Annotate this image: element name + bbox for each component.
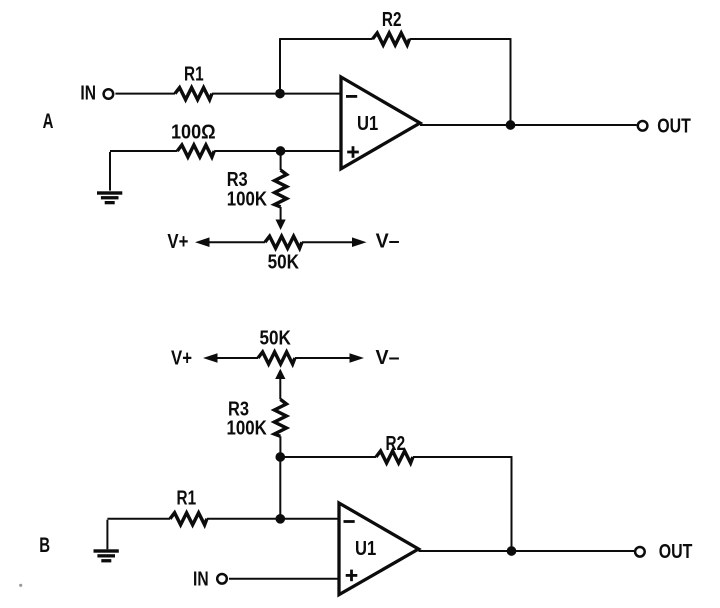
wire R2 to right corner — [410, 38, 511, 40]
pin minus sign (B) — [344, 520, 355, 523]
wire pot to V- arrow (B) — [295, 357, 351, 359]
wire R2 to right corner (B) — [413, 456, 512, 458]
terminal IN (A) — [104, 89, 114, 99]
wire op-amp output to OUT (A) — [420, 124, 637, 126]
wire feedback top-left to R2 — [279, 38, 373, 40]
terminal OUT (A) — [638, 121, 648, 131]
svg-text:100Ω: 100Ω — [171, 121, 216, 143]
svg-text:OUT: OUT — [657, 116, 691, 138]
potentiometer 50K body (B) zigzag — [258, 352, 295, 364]
wire feedback vertical down to output (B) — [511, 456, 513, 551]
node: junction dot inverting input (A) — [275, 89, 285, 99]
wire IN to R1 — [115, 93, 175, 95]
svg-text:50K: 50K — [268, 252, 300, 274]
node: junction dot R2 tap (B) — [275, 452, 285, 462]
arrowhead V- (A) — [352, 237, 367, 247]
wire ground drop (B) — [106, 520, 108, 550]
terminal IN (B) — [217, 574, 227, 584]
wire R1 to op-amp inverting input (B) — [207, 518, 339, 520]
ground symbol (A) — [97, 191, 122, 204]
wiper arrow pointing up at pot (B) — [275, 369, 285, 379]
ground symbol (B) — [94, 549, 119, 562]
resistor R3 (B) vertical zigzag — [274, 399, 286, 436]
wire wiper arrow to R3 (B) — [279, 379, 281, 400]
svg-text:IN: IN — [80, 82, 96, 104]
svg-text:B: B — [39, 534, 50, 557]
wire 100-ohm to op-amp noninverting input — [214, 150, 341, 152]
pin plus sign (B) — [346, 570, 358, 582]
wire feedback left vertical (A) — [279, 39, 281, 94]
wire R3 to node (B) — [279, 436, 281, 457]
svg-text:U1: U1 — [357, 113, 378, 135]
terminal OUT (B) — [635, 547, 645, 557]
svg-text:50K: 50K — [260, 328, 292, 350]
resistor 100-ohm zigzag (A) — [177, 145, 214, 157]
wire node down to inverting input row (B) — [279, 457, 281, 519]
wire R1 to op-amp inverting input — [212, 93, 341, 95]
node: junction dot output (B) — [507, 546, 517, 556]
svg-text:R2: R2 — [382, 9, 402, 31]
resistor R1 (B) zigzag — [170, 513, 207, 525]
node: junction dot noninverting input (A) — [276, 146, 286, 156]
resistor R2 (A) zigzag — [373, 33, 410, 45]
svg-text:V+: V+ — [167, 231, 188, 253]
wire R3 to wiper arrow (A) — [280, 207, 282, 220]
arrowhead V+ (B) — [203, 353, 218, 363]
op-amp U1 (A) triangle — [341, 77, 420, 169]
wire ground row to 100-ohm resistor (A) — [110, 150, 177, 152]
svg-text:100K: 100K — [227, 417, 268, 439]
svg-text:V+: V+ — [171, 347, 192, 369]
wire feedback right vertical down to output — [510, 38, 512, 125]
svg-text:OUT: OUT — [659, 541, 693, 563]
wire op-amp output to OUT (B) — [419, 550, 635, 552]
arrowhead V- (B) — [350, 353, 365, 363]
pin plus sign (A) — [347, 146, 359, 158]
op-amp U1 (B) triangle — [339, 503, 419, 595]
node: junction dot output (A) — [506, 120, 516, 130]
potentiometer 50K body (A) zigzag — [265, 236, 302, 248]
svg-text:R1: R1 — [177, 488, 197, 510]
svg-text:R1: R1 — [184, 64, 204, 86]
resistor R3 (A) vertical zigzag — [275, 170, 287, 207]
svg-text:R2: R2 — [386, 433, 406, 455]
pin minus sign (A) — [346, 95, 357, 98]
wire IN to op-amp noninverting input (B) — [229, 578, 339, 580]
resistor R2 (B) zigzag — [376, 451, 413, 463]
svg-text:V–: V– — [376, 231, 400, 253]
wire pot to V+ arrow (B) — [216, 357, 258, 359]
arrowhead V+ (A) — [195, 237, 210, 247]
wire node to R2 (B) — [280, 456, 376, 458]
node: junction dot inverting input (B) — [275, 514, 285, 524]
wire ground drop (A) — [109, 152, 111, 191]
wire ground row to R1 (B) — [107, 518, 170, 520]
svg-text:IN: IN — [193, 569, 209, 591]
wire pot to V- arrow (A) — [302, 241, 354, 243]
svg-text:V–: V– — [376, 347, 400, 369]
wire pot to V+ arrow (A) — [208, 241, 265, 243]
wiper arrow pointing down at pot (A) — [276, 220, 286, 231]
svg-text:100K: 100K — [227, 189, 268, 211]
scan speck — [19, 584, 22, 587]
svg-text:A: A — [43, 110, 54, 133]
resistor R1 (A) zigzag — [175, 88, 212, 100]
svg-text:U1: U1 — [355, 538, 376, 560]
wire node to R3 (A) — [280, 151, 282, 170]
